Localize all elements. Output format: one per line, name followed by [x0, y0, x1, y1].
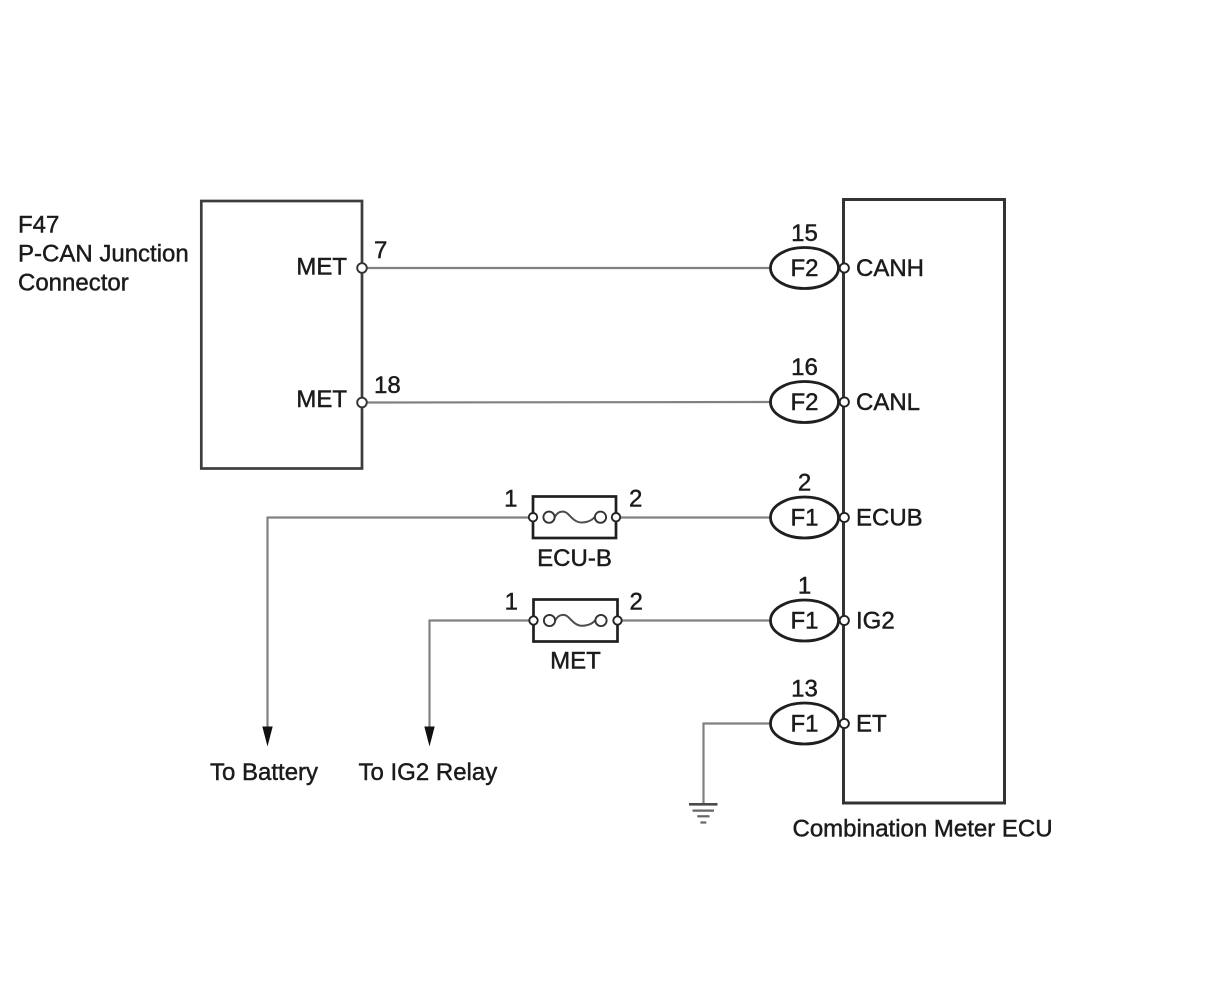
pin circle IG2: [840, 616, 849, 625]
svg-text:MET: MET: [550, 648, 601, 675]
svg-text:To Battery: To Battery: [210, 759, 318, 786]
svg-text:F1: F1: [790, 607, 818, 634]
pin circle CANL: [840, 397, 849, 406]
wire ET to ground horizontal: [704, 722, 772, 724]
svg-text:MET: MET: [296, 254, 347, 281]
wire IG2 fuse to F1 1: [615, 619, 771, 621]
pin circle ET: [840, 719, 849, 728]
svg-text:IG2: IG2: [856, 607, 895, 634]
svg-text:1: 1: [505, 589, 518, 616]
svg-text:F1: F1: [790, 710, 818, 737]
svg-text:CANL: CANL: [856, 389, 920, 416]
terminal oval F1 pin 13 ET: [771, 703, 839, 744]
terminal oval F1 pin 1 IG2: [771, 600, 839, 641]
arrowhead to IG2 relay: [424, 727, 434, 747]
svg-text:MET: MET: [296, 386, 347, 413]
svg-text:1: 1: [504, 486, 517, 513]
svg-text:ECUB: ECUB: [856, 504, 923, 531]
svg-text:Connector: Connector: [18, 270, 129, 297]
svg-text:F2: F2: [790, 255, 818, 282]
wire CANL (MET 18 to F2 16): [366, 401, 771, 404]
svg-text:16: 16: [791, 354, 818, 381]
wire battery feed vertical drop: [266, 517, 268, 729]
svg-text:18: 18: [374, 372, 401, 399]
wire IG2 relay feed vertical drop: [428, 620, 430, 729]
svg-text:13: 13: [791, 676, 818, 703]
wire CANH (MET 7 to F2 15): [366, 267, 771, 269]
svg-text:To IG2 Relay: To IG2 Relay: [359, 759, 498, 786]
svg-text:7: 7: [374, 237, 387, 264]
svg-text:2: 2: [629, 486, 642, 513]
svg-text:P-CAN Junction: P-CAN Junction: [18, 241, 189, 268]
svg-text:F47: F47: [18, 212, 59, 239]
terminal oval F2 pin 16 CANL: [771, 382, 839, 423]
svg-text:15: 15: [791, 220, 818, 247]
svg-text:CANH: CANH: [856, 255, 924, 282]
pin circle ECUB: [840, 513, 849, 522]
svg-text:ET: ET: [856, 710, 887, 737]
wire ET ground vertical drop: [702, 723, 704, 804]
wire ECUB fuse to F1 2: [614, 516, 771, 518]
svg-text:F1: F1: [790, 504, 818, 531]
arrowhead to battery: [262, 727, 272, 747]
ground: [689, 804, 718, 822]
label F47 P-CAN Junction Connector: [18, 212, 189, 297]
pin circle MET 7: [357, 263, 367, 273]
svg-text:F2: F2: [790, 389, 818, 416]
terminal oval F1 pin 2 ECUB: [771, 497, 839, 538]
pin circle MET 18: [357, 398, 367, 408]
wire battery feed horizontal to fuse ECU-B: [268, 516, 536, 518]
svg-text:2: 2: [798, 470, 811, 497]
terminal oval F2 pin 15 CANH: [771, 248, 839, 289]
fuse F-MET MET: [529, 600, 621, 642]
wire IG2 relay feed horizontal to fuse MET: [430, 619, 537, 621]
pin circle CANH: [840, 263, 849, 272]
svg-text:ECU-B: ECU-B: [537, 545, 612, 572]
fuse F-ECUB ECU-B: [529, 497, 620, 539]
ECU box Combination Meter ECU: [844, 200, 1005, 804]
connector J1 F47 P-CAN Junction Connector box: [201, 201, 362, 469]
svg-text:Combination Meter ECU: Combination Meter ECU: [793, 816, 1053, 843]
svg-text:1: 1: [798, 573, 811, 600]
svg-text:2: 2: [630, 589, 643, 616]
